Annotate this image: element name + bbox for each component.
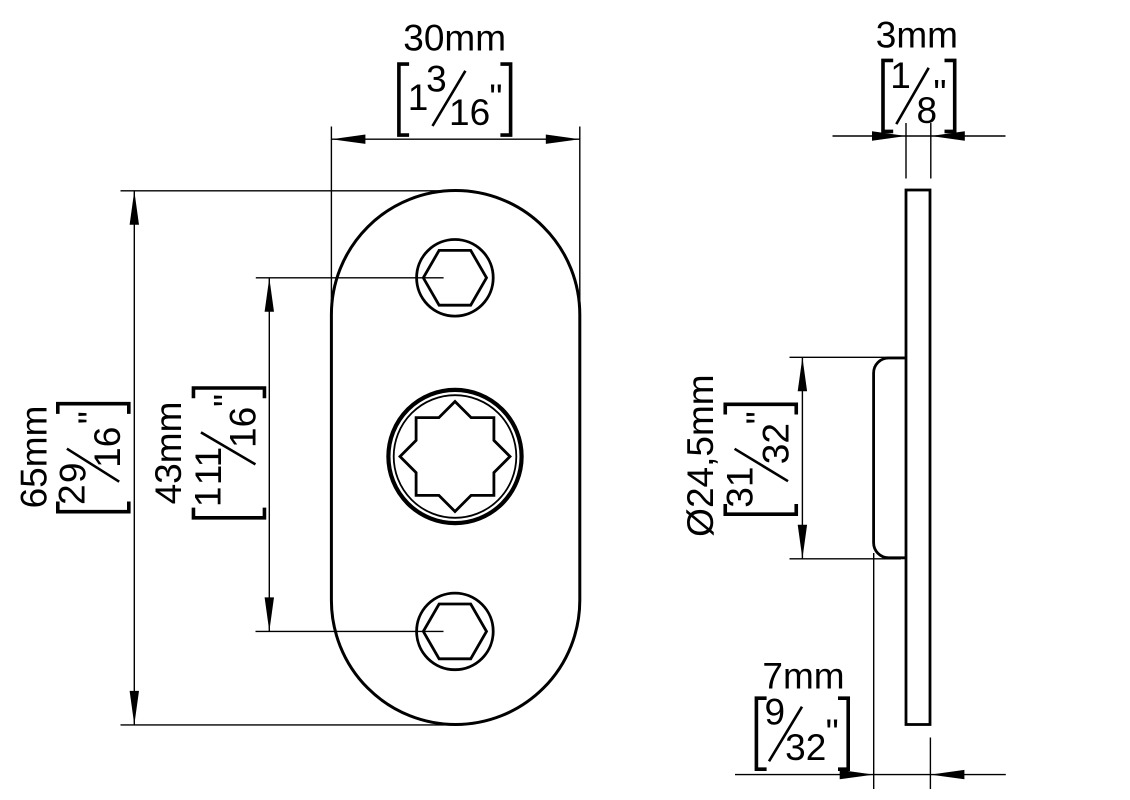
65mm dimension line [133,191,135,725]
label [2 9/16"] (rotated) [52,404,129,512]
svg-text:16: 16 [222,407,263,448]
svg-text:Ø24,5mm: Ø24,5mm [680,374,721,536]
svg-text:2: 2 [52,484,93,505]
24.5mm top extension line [790,356,907,358]
43mm top extension line [256,277,444,279]
svg-text:9: 9 [765,692,786,733]
svg-text:31: 31 [719,467,760,508]
43mm dimension line [268,278,270,632]
24.5mm bottom extension line [790,558,902,560]
3mm left arrowhead (outside) [872,131,906,140]
8-point star drive socket [400,402,510,512]
plate outline (front view, obround 30x65mm) [331,191,579,725]
30mm left arrowhead [331,135,365,144]
24.5mm bottom arrowhead [798,525,807,559]
centre hole inner circle [394,395,517,518]
svg-text:43mm: 43mm [148,402,189,505]
label [9/32"] [756,692,848,770]
65mm bottom extension line [121,724,461,726]
43mm bottom extension line [256,630,444,632]
svg-text:30mm: 30mm [403,18,506,59]
bottom hex socket [423,604,486,659]
bottom hex screw hole circle [417,593,494,670]
3mm right arrowhead (outside) [931,131,965,140]
svg-text:11: 11 [188,447,229,485]
label [1/8"] [883,55,955,131]
svg-text:": " [933,73,946,114]
svg-text:16: 16 [87,427,128,468]
svg-text:3mm: 3mm [876,15,958,56]
43mm bottom arrowhead [265,597,274,631]
7mm left arrowhead (outside) [840,770,874,779]
24.5mm top arrowhead [798,357,807,391]
7mm right extension line [929,738,931,790]
65mm top extension line [121,190,457,192]
svg-text:": " [489,77,502,118]
label [1 11/16"] (rotated) [187,388,264,518]
svg-text:65mm: 65mm [13,406,54,509]
svg-text:32: 32 [785,727,826,768]
svg-text:1: 1 [187,487,228,508]
svg-text:": " [206,394,247,407]
svg-text:32: 32 [755,423,796,464]
top hex screw hole circle [417,239,494,316]
label [31/32"] (rotated) [719,404,796,514]
3mm dimension line [833,135,1006,137]
30mm right arrowhead [546,135,580,144]
top hex socket [423,250,486,305]
svg-text:3: 3 [426,59,447,100]
30mm dimension line [331,138,579,140]
24.5mm dimension line [801,357,803,559]
svg-text:7mm: 7mm [762,656,844,697]
7mm right arrowhead (outside) [930,770,964,779]
3mm right extension line [930,123,932,179]
65mm top arrowhead [130,191,139,225]
svg-text:1: 1 [890,55,911,96]
65mm bottom arrowhead [130,691,139,725]
svg-text:": " [826,712,839,753]
svg-text:": " [739,411,780,424]
centre hole outer circle (24.5mm boss) [388,390,521,523]
30mm right extension line [579,127,581,315]
7mm left extension line [873,553,875,789]
3mm left extension line [905,123,907,179]
plate side view (3mm thick) [906,190,930,725]
43mm top arrowhead [265,278,274,312]
centre boss side profile [874,358,906,558]
7mm dimension line [735,774,1006,776]
30mm left extension line [330,127,332,315]
svg-text:": " [71,411,112,424]
svg-text:16: 16 [449,92,490,133]
label [1 3/16"] [399,59,511,136]
